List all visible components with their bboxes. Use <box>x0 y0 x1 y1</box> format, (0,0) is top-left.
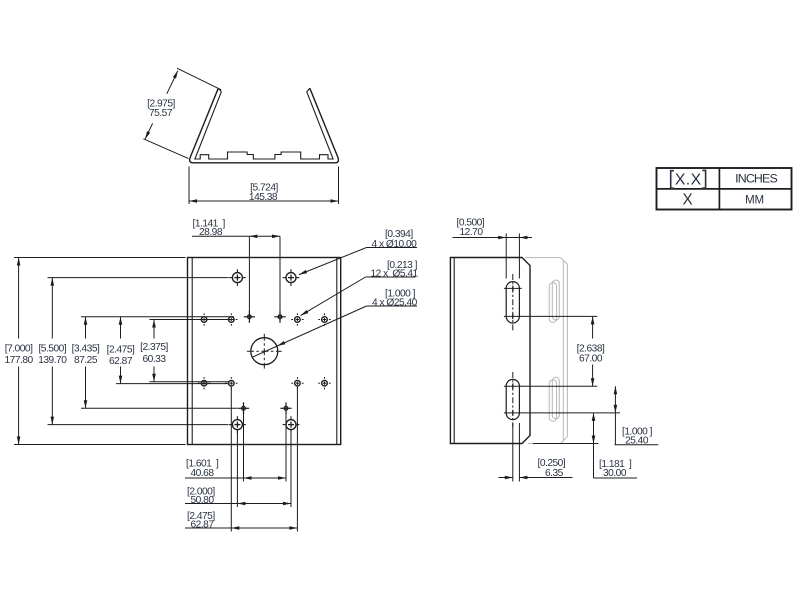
svg-text:[2.475]: [2.475] <box>107 345 135 356</box>
dimension 5.724 line <box>189 200 339 202</box>
holes D5.41 lower row <box>201 380 207 386</box>
svg-text:30.00: 30.00 <box>603 468 627 479</box>
slot lower <box>506 379 519 419</box>
phantom flange bottom edge gray <box>528 443 561 445</box>
dimension 1.141 line <box>192 235 280 237</box>
dimension 2.000 extension lines <box>236 430 238 507</box>
dimension 1.141 extension lines <box>248 236 250 312</box>
svg-text:[2.375]: [2.375] <box>140 342 168 353</box>
svg-text:25.40: 25.40 <box>625 436 649 447</box>
dimension 7.000 / 177.80 <box>18 258 20 339</box>
dimension 7.000 extension lines <box>14 257 186 259</box>
front view right bend line <box>336 258 338 445</box>
dimension 2.000 line <box>185 503 291 505</box>
svg-text:[7.000]: [7.000] <box>5 344 33 355</box>
leader D5.41 holes <box>366 276 416 278</box>
dimension 2.638 extension lines <box>521 315 597 317</box>
svg-text:MM: MM <box>745 194 764 206</box>
svg-text:40.68: 40.68 <box>191 468 215 479</box>
svg-text:50.80: 50.80 <box>191 495 215 506</box>
side view plate outline <box>450 258 530 444</box>
small cross holes upper middle pair <box>248 315 252 319</box>
svg-text:[5.500]: [5.500] <box>38 344 66 355</box>
front view left bend line <box>191 258 193 445</box>
phantom slot lower gray <box>549 380 556 421</box>
legend table box <box>657 168 792 210</box>
dimension 2.975 extension line from base corner <box>143 139 188 159</box>
dimension 2.475 bottom line <box>185 527 297 529</box>
phantom flange top edge gray <box>525 257 561 259</box>
top view channel inner outline with tabs <box>195 92 333 159</box>
dimension 1.181 leader to text <box>593 444 595 479</box>
svg-text:145.38: 145.38 <box>249 192 278 203</box>
dimension 2.975 line upper segment with arrow <box>167 71 178 94</box>
slot lower arc center ticks <box>504 385 522 387</box>
right flange tip cap <box>307 88 310 92</box>
svg-text:75.57: 75.57 <box>149 108 173 119</box>
svg-text:X.X: X.X <box>675 171 702 188</box>
dimension 1.601 line <box>185 477 286 479</box>
svg-text:28.98: 28.98 <box>199 227 223 238</box>
phantom flange inner line gray <box>562 260 564 440</box>
slot upper arc center ticks <box>504 287 522 289</box>
svg-text:60.33: 60.33 <box>143 354 167 365</box>
slot upper <box>506 282 519 323</box>
dimension 2.975 extension line from tip <box>177 68 221 90</box>
dimension 2.475 / 62.87 <box>120 317 122 339</box>
phantom flange outer edge gray <box>566 264 568 436</box>
hole D10 bottom left <box>232 420 242 430</box>
center hole crosshair <box>263 334 265 369</box>
dimension 3.435 / 87.25 <box>85 317 87 339</box>
dimension 0.250 extension lines <box>512 423 514 482</box>
svg-text:4 x Ø25.40: 4 x Ø25.40 <box>372 298 418 309</box>
dimension 2.475 bottom extension lines <box>230 387 232 532</box>
svg-text:87.25: 87.25 <box>74 355 98 366</box>
top view channel bracket outer outline <box>190 88 339 163</box>
phantom slot upper gray <box>549 283 556 323</box>
dimension 1.000 leader to text <box>614 413 616 445</box>
hole D10 top left <box>232 273 242 283</box>
small cross holes bottom pair <box>242 406 246 410</box>
leader D25.40 hole <box>367 305 418 307</box>
holes D5.41 upper row <box>201 317 207 323</box>
center hole D25.40 <box>251 338 278 365</box>
dimension 2.638 line <box>592 316 594 338</box>
svg-text:[3.435]: [3.435] <box>72 344 100 355</box>
dimension 5.724 extension lines <box>188 167 190 205</box>
dimension 1.181 line <box>593 413 595 444</box>
dimension 5.500 / 139.70 <box>51 278 53 339</box>
dimension 2.375 / 60.33 <box>153 320 155 339</box>
slot lower centerline <box>512 372 514 427</box>
side view left inner line <box>453 258 455 444</box>
svg-text:12.70: 12.70 <box>460 227 484 238</box>
svg-text:62.87: 62.87 <box>109 356 133 367</box>
svg-text:4 x Ø10.00: 4 x Ø10.00 <box>372 239 418 250</box>
dimension 1.181 bottom extension line <box>533 443 599 445</box>
dimension 1.601 extension lines <box>243 412 245 482</box>
dimension 3.435 extension lines <box>81 316 234 318</box>
front view plate outline <box>188 258 341 445</box>
svg-text:INCHES: INCHES <box>735 172 777 186</box>
left flange tip cap <box>218 88 221 92</box>
dimension 2.975 line lower segment with arrow <box>145 123 153 139</box>
svg-text:139.70: 139.70 <box>38 355 67 366</box>
dimension 0.250 line and arrows <box>499 477 513 479</box>
dimension 2.375 extension lines <box>150 319 235 321</box>
legend text X.X brackets <box>671 171 674 189</box>
dimension 5.500 extension lines <box>48 277 229 279</box>
leader D10 holes <box>367 247 418 249</box>
svg-text:12 x Ø5.41: 12 x Ø5.41 <box>371 269 419 280</box>
legend table middle line <box>657 188 792 190</box>
legend table divider <box>718 168 720 210</box>
dimension 0.500 extension lines <box>505 234 507 279</box>
slot upper centerline <box>512 274 514 331</box>
dimension 0.500 line and arrows <box>453 237 533 239</box>
hole D10 bottom right <box>286 420 296 430</box>
svg-text:X: X <box>682 192 692 209</box>
dimension 2.475 extension line bottom <box>116 383 229 385</box>
hole D10 top right <box>286 273 296 283</box>
svg-text:6.35: 6.35 <box>545 468 564 479</box>
dimension 1.000 extension line <box>521 412 620 414</box>
svg-text:67.00: 67.00 <box>579 354 603 365</box>
svg-text:177.80: 177.80 <box>5 355 34 366</box>
dimension 1.000 line <box>614 386 616 413</box>
svg-text:62.87: 62.87 <box>191 520 215 531</box>
